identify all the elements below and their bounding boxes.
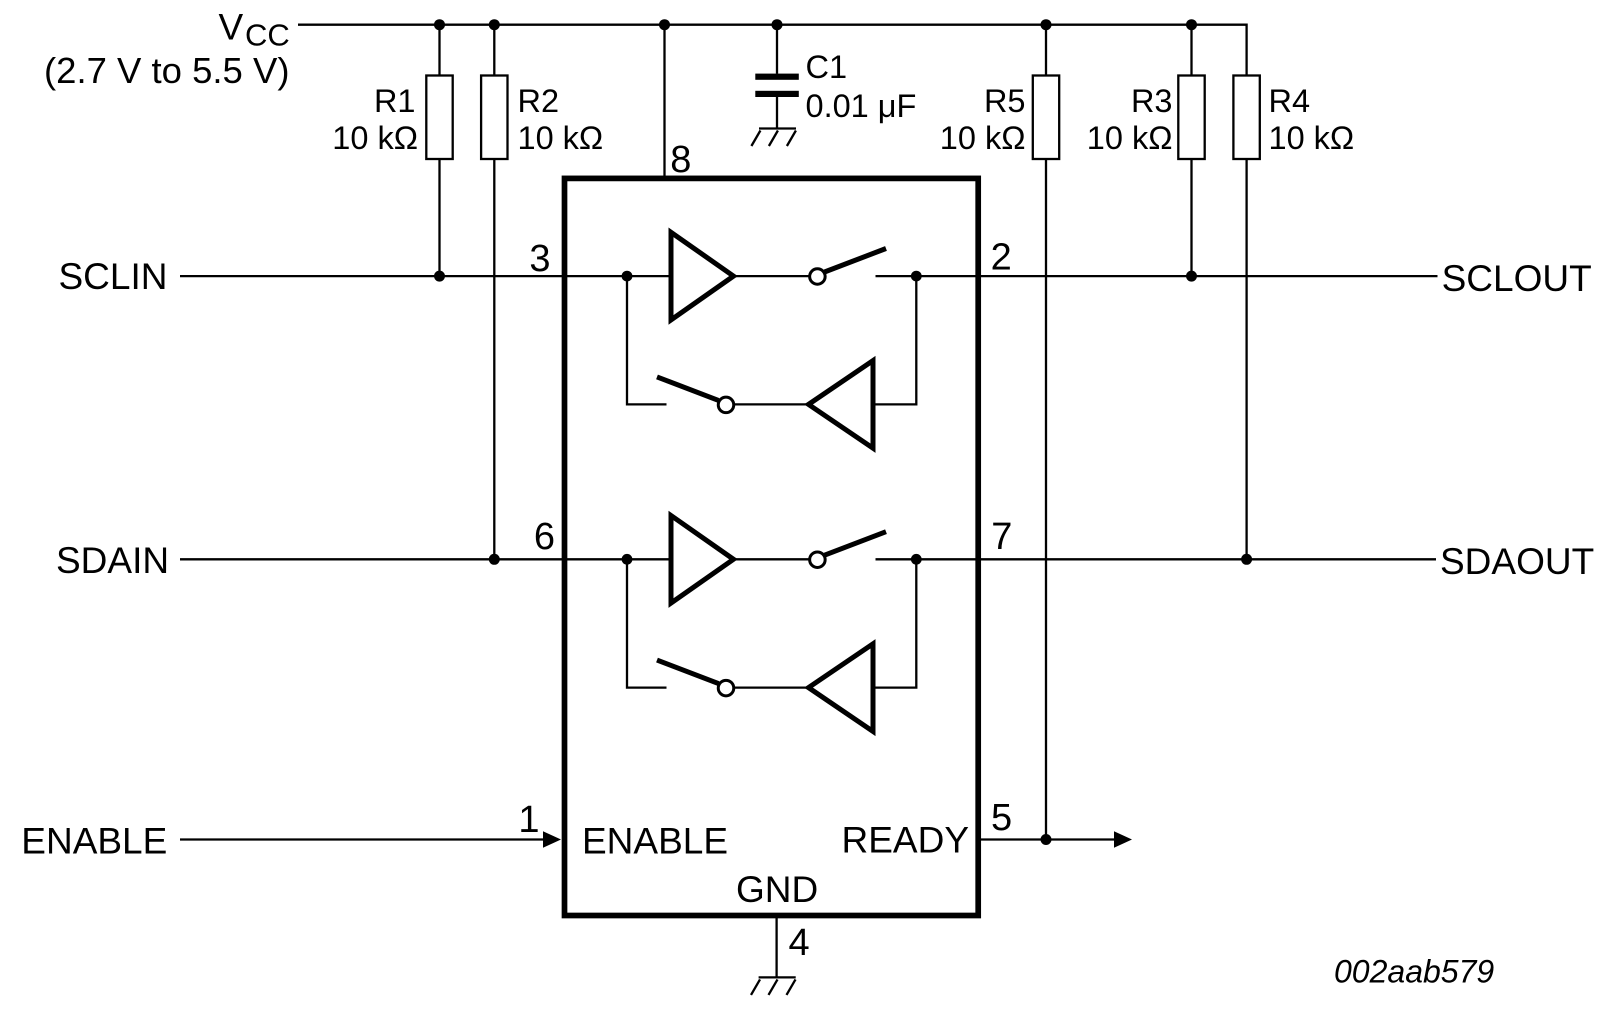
node VCC-R1 junction — [434, 19, 445, 30]
svg-text:1: 1 — [518, 799, 539, 841]
wire C1 bottom lead — [776, 97, 778, 129]
wire SDAIN — [180, 558, 564, 560]
switch S4 contact — [718, 680, 734, 696]
switch S4 lever — [657, 660, 719, 684]
node VCC-R2 junction — [489, 19, 500, 30]
wire R3 top lead — [1190, 25, 1192, 75]
arrowhead into pin 1 — [543, 831, 561, 847]
svg-text:10 kΩ: 10 kΩ — [518, 120, 604, 156]
node VCC-R3 junction — [1186, 19, 1197, 30]
wire C1 top lead — [776, 25, 778, 74]
switch S3 lever — [825, 532, 887, 556]
svg-text:R4: R4 — [1269, 83, 1311, 119]
wire R2 bottom lead to SDAIN — [493, 160, 495, 559]
svg-text:C1: C1 — [806, 49, 848, 85]
wire R3 bottom lead to SCLOUT — [1190, 160, 1192, 276]
wire SDA feedback right vertical — [873, 559, 916, 687]
buffer A2 reverse — [809, 361, 874, 449]
buffer A4 reverse — [809, 644, 874, 732]
svg-text:7: 7 — [991, 516, 1012, 558]
svg-text:10 kΩ: 10 kΩ — [1269, 120, 1355, 156]
wire R5 top lead — [1045, 25, 1047, 75]
capacitor C1 — [755, 74, 799, 80]
svg-text:ENABLE: ENABLE — [582, 820, 728, 861]
node VCC-pin8 junction — [659, 19, 670, 30]
svg-text:V: V — [219, 7, 244, 48]
wire pin 8 supply lead — [663, 25, 665, 176]
node SDAIN-R2 junction — [489, 554, 500, 565]
svg-text:0.01 μF: 0.01 μF — [806, 88, 917, 124]
svg-text:2: 2 — [991, 237, 1012, 279]
wire SCL feedback left vertical — [627, 276, 667, 404]
svg-text:SCLOUT: SCLOUT — [1442, 258, 1592, 299]
node READY-R5 junction — [1041, 834, 1052, 845]
wire VCC rail — [298, 25, 1247, 75]
buffer A3 forward — [671, 516, 734, 604]
switch S3 contact — [810, 552, 826, 568]
svg-text:SDAOUT: SDAOUT — [1440, 541, 1594, 582]
svg-text:R5: R5 — [984, 83, 1026, 119]
svg-text:(2.7 V to 5.5 V): (2.7 V to 5.5 V) — [44, 50, 289, 91]
wire SDAOUT — [980, 558, 1436, 560]
node VCC-R5 junction — [1041, 19, 1052, 30]
resistor R3 — [1178, 76, 1204, 160]
node SDA left junction — [622, 554, 633, 565]
wire pin6 to switch — [566, 558, 810, 560]
wire R1 bottom lead — [438, 160, 440, 276]
svg-text:CC: CC — [245, 17, 290, 52]
wire R2 top lead — [493, 25, 495, 75]
svg-text:4: 4 — [789, 922, 810, 964]
wire SCLIN — [180, 275, 564, 277]
resistor R1 — [426, 76, 452, 160]
svg-text:3: 3 — [529, 238, 550, 280]
node SCLIN-R1 junction — [434, 271, 445, 282]
resistor R5 — [1033, 76, 1059, 160]
svg-text:SCLIN: SCLIN — [59, 256, 168, 297]
resistor R4 — [1233, 76, 1259, 160]
wire switch to pin2 — [876, 275, 978, 277]
ground (pin 4) — [751, 977, 796, 995]
svg-text:10 kΩ: 10 kΩ — [940, 120, 1026, 156]
node VCC-C1 junction — [772, 19, 783, 30]
switch S2 contact — [718, 397, 734, 413]
wire SCL feedback right vertical — [873, 276, 916, 404]
svg-text:6: 6 — [534, 516, 555, 558]
node SCLOUT-R3 junction — [1186, 271, 1197, 282]
wire switch to pin7 — [876, 558, 978, 560]
svg-text:R1: R1 — [374, 83, 416, 119]
wire switch to buffer A2 — [734, 403, 806, 405]
switch S1 contact — [810, 269, 826, 285]
wire switch to buffer A4 — [734, 686, 806, 688]
wire GND pin 4 lead — [775, 916, 777, 977]
svg-text:SDAIN: SDAIN — [56, 540, 169, 581]
node SCL right junction — [911, 271, 922, 282]
node SDA right junction — [911, 554, 922, 565]
svg-text:5: 5 — [991, 797, 1012, 839]
IC U1 body — [565, 178, 979, 915]
wire READY output — [980, 838, 1116, 840]
svg-text:ENABLE: ENABLE — [21, 821, 167, 862]
wire SCLOUT — [980, 275, 1438, 277]
resistor R2 — [481, 76, 507, 160]
svg-text:002aab579: 002aab579 — [1334, 954, 1494, 990]
node SCL left junction — [622, 271, 633, 282]
svg-text:10 kΩ: 10 kΩ — [332, 120, 418, 156]
svg-text:READY: READY — [842, 820, 969, 861]
switch S1 lever — [825, 249, 887, 273]
ground (C1) — [751, 129, 796, 147]
wire R1 top lead — [438, 25, 440, 75]
buffer A1 forward — [671, 232, 734, 320]
wire ENABLE input — [180, 838, 545, 840]
svg-text:GND: GND — [736, 869, 818, 910]
svg-text:R2: R2 — [518, 83, 560, 119]
svg-text:8: 8 — [670, 139, 691, 181]
arrowhead READY output — [1114, 831, 1132, 847]
node SDAOUT-R4 junction — [1241, 554, 1252, 565]
wire R5 bottom lead to READY — [1045, 160, 1047, 840]
wire R4 bottom lead to SDAOUT — [1245, 160, 1247, 559]
wire SDA feedback left vertical — [627, 559, 667, 687]
svg-text:10 kΩ: 10 kΩ — [1087, 120, 1173, 156]
wire pin3 to switch — [566, 275, 810, 277]
switch S2 lever — [657, 377, 719, 401]
svg-text:R3: R3 — [1131, 83, 1173, 119]
